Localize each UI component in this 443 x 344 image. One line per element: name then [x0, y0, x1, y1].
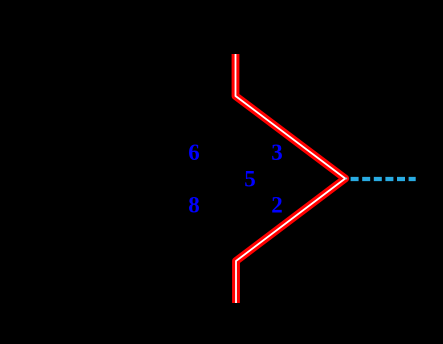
output wire (cyan dashed) — [351, 177, 416, 181]
svg-text:3: 3 — [271, 140, 283, 165]
svg-text:5: 5 — [244, 166, 256, 191]
svg-text:8: 8 — [188, 193, 200, 218]
output wire stub at tip — [345, 178, 347, 180]
svg-text:2: 2 — [271, 193, 283, 218]
op-amp U1 highlighted edges white core — [236, 54, 346, 303]
op-amp U1 highlighted edges with supply wires (red outline) — [236, 54, 346, 303]
svg-text:6: 6 — [188, 140, 200, 165]
